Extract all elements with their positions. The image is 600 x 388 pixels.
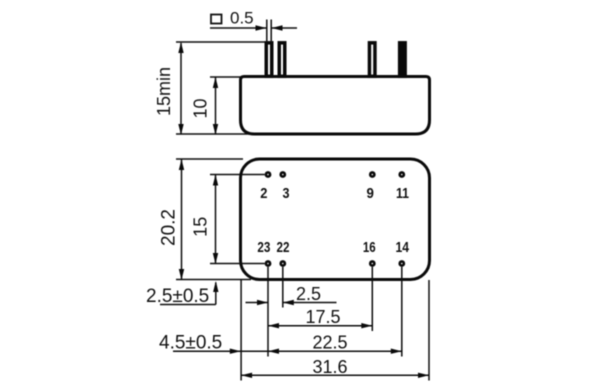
svg-text:16: 16 <box>363 240 376 256</box>
svg-text:20.2: 20.2 <box>158 209 179 246</box>
svg-text:4.5±0.5: 4.5±0.5 <box>159 333 222 354</box>
svg-text:2.5: 2.5 <box>296 284 321 304</box>
svg-text:22.5: 22.5 <box>312 333 347 353</box>
svg-text:2: 2 <box>260 186 267 202</box>
svg-text:10: 10 <box>191 98 211 118</box>
svg-text:2.5±0.5: 2.5±0.5 <box>146 286 209 307</box>
svg-text:15min: 15min <box>154 67 174 116</box>
svg-text:22: 22 <box>277 240 290 256</box>
svg-text:14: 14 <box>396 240 410 256</box>
svg-text:31.6: 31.6 <box>312 357 347 377</box>
svg-text:17.5: 17.5 <box>305 307 340 327</box>
svg-text:9: 9 <box>367 186 374 202</box>
svg-text:3: 3 <box>283 186 290 202</box>
svg-text:0.5: 0.5 <box>230 9 254 28</box>
svg-text:11: 11 <box>396 186 409 202</box>
svg-text:15: 15 <box>190 217 210 237</box>
svg-text:23: 23 <box>257 240 270 256</box>
